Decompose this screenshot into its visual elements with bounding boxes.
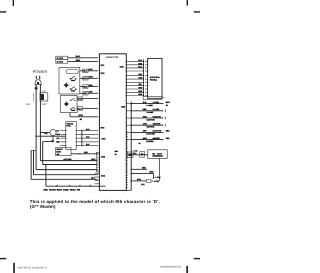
wire ladder row 11 — [126, 93, 148, 96]
wire load 4 LAMP — [126, 101, 170, 107]
thermal cutout H.TCO — [56, 60, 68, 64]
trans pcb — [66, 122, 76, 150]
junction jog — [31, 149, 36, 151]
svg-text:BUZZER: BUZZER — [153, 137, 161, 140]
wire interlock A row BLK — [80, 68, 98, 73]
wire ladder row 5 — [126, 73, 148, 76]
svg-text:BUZZER: BUZZER — [146, 140, 154, 143]
wire N (WHT) vertical bus — [39, 84, 41, 160]
main pcb outline — [99, 54, 126, 191]
svg-text:GRN: GRN — [56, 133, 61, 136]
svg-text:ASSY: ASSY — [157, 152, 163, 155]
wire monitor B row BLU — [77, 107, 98, 111]
trans pcb pin row 2 — [60, 134, 98, 136]
trans pcb pin row 3 — [60, 136, 98, 139]
svg-text:4 LAMP: 4 LAMP — [146, 104, 153, 107]
svg-text:BLU: BLU — [78, 107, 83, 110]
wire ladder row 2 — [126, 62, 148, 65]
wire FM down to bottom bracket — [43, 136, 53, 165]
svg-text:SCHEMATIC DIAGRAM 5-3: SCHEMATIC DIAGRAM 5-3 — [17, 266, 48, 269]
HV connector box — [140, 152, 145, 158]
latch star B — [64, 101, 70, 107]
wire H.TCO to main pcb — [68, 59, 98, 62]
wire short-ring to pcb — [71, 151, 98, 155]
svg-text:WHT: WHT — [166, 101, 171, 104]
main pcb left pins trans rows — [99, 130, 100, 146]
svg-text:T.MOTOR: T.MOTOR — [153, 123, 162, 126]
wire ladder row 8 — [126, 83, 148, 86]
svg-text:BLK: BLK — [83, 70, 88, 73]
svg-text:POWER: POWER — [33, 69, 48, 74]
fan drop with arrow — [153, 173, 162, 179]
svg-text:PCB: PCB — [67, 125, 72, 128]
wire interlock A row RED — [80, 84, 98, 89]
connector CN4 label — [115, 150, 119, 156]
wire load T.MOTOR — [126, 123, 165, 129]
wire ladder row 4 — [126, 70, 148, 71]
wire BRN fan — [131, 171, 154, 174]
svg-text:MAIN PCB: MAIN PCB — [106, 56, 118, 59]
switch contact A2 — [70, 87, 77, 92]
svg-text:RY2: RY2 — [101, 72, 106, 75]
connector CN3 block — [96, 152, 99, 172]
svg-text:GRY: GRY — [76, 59, 81, 62]
svg-text:(110): (110) — [137, 178, 141, 181]
svg-text:CN1: CN1 — [120, 65, 125, 68]
trans pcb pin row 4 — [60, 141, 98, 143]
svg-text:MG: MG — [152, 152, 155, 155]
svg-text:ORG: ORG — [78, 98, 83, 101]
door capsule — [66, 70, 78, 74]
svg-text:WHT: WHT — [42, 103, 48, 106]
wire aux2 to pcb — [31, 150, 98, 180]
wire aux1 to pcb — [34, 150, 99, 175]
control panel connector bus — [142, 59, 144, 96]
wire bus to trans pcb — [35, 136, 65, 137]
wire ladder row 9 — [126, 87, 148, 90]
connector diamond on wire L — [35, 86, 38, 89]
wire interlock A row WHT — [80, 76, 98, 81]
crop mark bottom-right + footer bar/text — [160, 258, 200, 273]
svg-text:RED: RED — [56, 141, 60, 144]
magnetron box drop — [159, 158, 161, 181]
svg-text:BLK: BLK — [89, 68, 94, 71]
wire monitor B row ORG — [77, 97, 98, 101]
dashed earth stub — [33, 93, 35, 101]
svg-text:T.MOTOR: T.MOTOR — [146, 126, 155, 129]
svg-text:4R: 4R — [80, 118, 83, 121]
control panel box — [148, 58, 162, 98]
wire 110V tab row — [131, 178, 160, 186]
svg-text:RY1: RY1 — [101, 64, 106, 67]
svg-text:RY4: RY4 — [102, 137, 107, 140]
latch star A — [63, 82, 69, 88]
svg-text:ORG: ORG — [143, 123, 148, 126]
wire ladder row 1 — [126, 59, 148, 62]
svg-text:H.TCO: H.TCO — [57, 61, 64, 64]
svg-text:RED: RED — [83, 85, 88, 88]
monitor switch assy B box — [61, 96, 78, 113]
fuse F1 10A — [40, 90, 48, 101]
wire L bus to pcb — [36, 169, 98, 171]
trans pcb pin row 5 — [60, 143, 98, 146]
wire to magnetron — [127, 149, 147, 157]
wire pcb top corner drop — [125, 54, 127, 62]
wire FM branch to pcb — [43, 164, 98, 166]
trans pcb pin row 1 — [60, 128, 98, 131]
svg-text:DOOR SW: DOOR SW — [146, 133, 155, 136]
svg-text:RED: RED — [166, 130, 170, 133]
wire N bus to pcb — [40, 158, 98, 162]
svg-text:VIO: VIO — [56, 129, 60, 132]
svg-text:BRN: BRN — [149, 171, 154, 174]
wire S.TCO to main pcb — [68, 55, 98, 58]
plug P1 — [35, 76, 41, 85]
svg-text:ORG: ORG — [138, 77, 143, 80]
main pcb right edge pin ticks — [126, 132, 128, 187]
svg-text:YEL: YEL — [56, 137, 59, 140]
crop mark top-right — [187, 0, 200, 13]
svg-text:H.MOTOR: H.MOTOR — [146, 118, 155, 121]
svg-text:4 TAB: 4 TAB — [154, 180, 160, 183]
wire ladder row 7 — [126, 82, 148, 83]
wire ladder row 10 — [126, 90, 148, 93]
interlock switch assy A box — [59, 68, 80, 95]
svg-text:BLK: BLK — [26, 103, 31, 106]
svg-text:(G** Model): (G** Model) — [30, 204, 56, 209]
wire long bottom run — [45, 164, 105, 186]
wire load BUZZER — [126, 137, 170, 143]
labels left of trans pcb — [56, 129, 61, 143]
svg-text:A1: A1 — [115, 153, 117, 156]
wire load DOOR SW — [126, 130, 170, 136]
main pcb left edge pins upper — [99, 57, 100, 117]
svg-text:20B: 20B — [115, 150, 119, 153]
membrane tail box — [143, 96, 164, 99]
svg-text:MW4699S/5496 SW: MW4699S/5496 SW — [160, 266, 182, 269]
wire interlock A row GRY — [80, 91, 98, 96]
crop mark bottom-left + footer bar/text — [0, 258, 48, 273]
wire door sense WHT — [70, 113, 98, 118]
wire bus to FM — [40, 132, 50, 133]
short-ring label box — [56, 148, 71, 156]
svg-text:4 LAMP: 4 LAMP — [153, 101, 160, 104]
wire ladder row 3 — [126, 65, 148, 68]
svg-text:4P: 4P — [166, 104, 169, 107]
svg-text:RED: RED — [89, 84, 94, 87]
svg-text:O.LAMP: O.LAMP — [146, 111, 154, 114]
svg-text:BLK: BLK — [84, 151, 89, 154]
crop mark top-left — [0, 0, 14, 13]
svg-text:BL: BL — [139, 142, 141, 145]
fan motor FM — [44, 129, 56, 143]
wire load O.LAMP — [126, 108, 165, 114]
switch contact B2 — [70, 107, 75, 111]
svg-text:SW: SW — [56, 153, 59, 156]
svg-text:DO1: DO1 — [101, 175, 106, 178]
connector DO pins — [95, 173, 100, 184]
wire L (BLK) vertical bus — [35, 84, 37, 169]
svg-text:DOOR SW: DOOR SW — [153, 130, 162, 133]
wire load H.MOTOR — [126, 115, 165, 121]
svg-text:RY3: RY3 — [101, 127, 106, 130]
svg-text:1 FAN: 1 FAN — [155, 176, 161, 179]
magnetron assy box — [148, 150, 167, 159]
load bus — [130, 102, 132, 191]
svg-text:CN3: CN3 — [101, 155, 106, 158]
svg-text:BLK: BLK — [76, 55, 81, 58]
svg-text:PANEL): PANEL) — [150, 78, 157, 81]
svg-text:RED: RED — [166, 137, 170, 140]
svg-text:CN2: CN2 — [121, 105, 126, 108]
control panel title — [150, 76, 161, 82]
switch contact B1 — [70, 98, 75, 101]
svg-text:NEU SHORT RING FUSE TRIAC: NEU SHORT RING FUSE TRIAC FM — [44, 189, 81, 192]
svg-text:O.LAMP: O.LAMP — [153, 108, 161, 111]
thermal cutout S.TCO — [56, 56, 68, 60]
switch contact A1 — [70, 76, 77, 81]
svg-text:(3P): (3P) — [141, 183, 145, 186]
main pcb bottom-right jog to bus — [126, 189, 131, 191]
connector CN-T column — [81, 130, 83, 147]
svg-text:H.MOTOR: H.MOTOR — [153, 115, 162, 118]
wire RED turntable — [131, 167, 147, 170]
wire ladder row 6 — [126, 77, 148, 80]
